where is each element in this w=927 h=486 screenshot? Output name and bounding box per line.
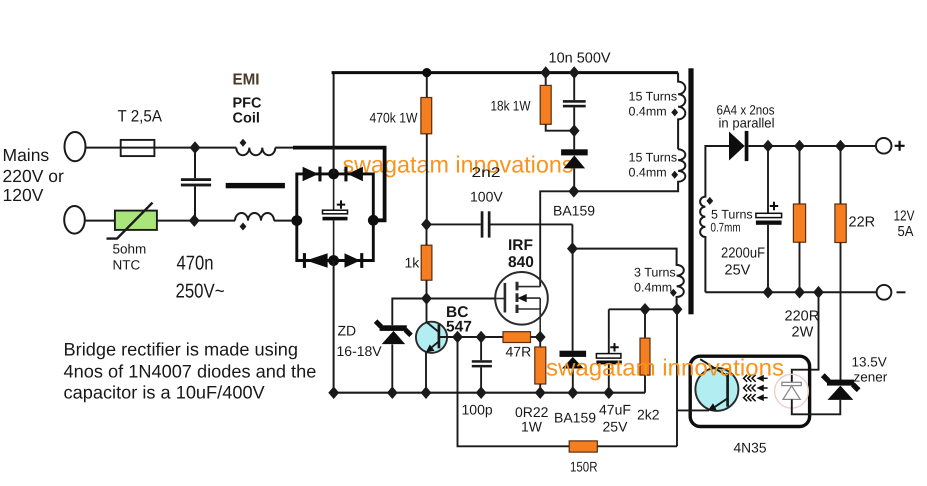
label Mains 220V or 120V (3, 145, 64, 205)
svg-text:22R: 22R (849, 215, 876, 231)
junction: -rail at opto LED return (813, 286, 824, 299)
junction: gate node (1k bottom) (421, 292, 432, 305)
wire: neutral input to EMI coil (85, 220, 235, 222)
junction: neutral/X-cap node (189, 214, 200, 227)
bridge diode D4 (bottom-right) (345, 253, 361, 267)
junction: ground at 0R22 (535, 386, 546, 399)
bridge diode D3 (bottom-left) (303, 253, 306, 268)
diode BA159 (aux clamp) (572, 249, 574, 351)
wire: 2n2 to aux node (571, 224, 573, 248)
transformer T1 primary winding 1 (15 turns) (678, 73, 685, 150)
svg-text:1k: 1k (405, 255, 421, 271)
wire: base node to 47R (458, 336, 504, 338)
svg-text:10n 500V: 10n 500V (549, 51, 611, 67)
inductor L1a: EMI top winding (236, 148, 275, 156)
svg-text:5ohm: 5ohm (113, 242, 147, 257)
wire: LED anode to zener anode (792, 399, 841, 414)
junction: live/X-cap node (190, 141, 201, 154)
svg-text:15 Turns: 15 Turns (629, 151, 678, 165)
MOSFET Q1 IRF840 (495, 272, 548, 325)
svg-text:swagatam innovations: swagatam innovations (546, 355, 784, 381)
junction: ground at 100p (476, 386, 487, 399)
wire: DC+ top rail (332, 71, 678, 74)
svg-text:470k 1W: 470k 1W (370, 110, 419, 126)
diode BA159 (snubber clamp) (573, 131, 575, 150)
value labels primary (337, 51, 767, 475)
Q2 emitter with arrow (430, 341, 439, 349)
phase dot winding 1 (671, 108, 678, 116)
svg-text:3 Turns: 3 Turns (634, 266, 676, 280)
wire: EMI top output to bridge AC right (thick) (293, 148, 385, 221)
svg-text:zener: zener (854, 370, 888, 385)
inductor L1b: EMI bottom winding (235, 213, 274, 221)
capacitor 47uF 25V (608, 309, 610, 353)
svg-text:250V~: 250V~ (176, 281, 225, 303)
zener 13.5V (827, 380, 854, 386)
capacitor 100p (480, 337, 482, 360)
wire: 22R to 13.5V zener (crosses -rail) (840, 243, 842, 381)
wire: bridge + up to DC rail (333, 73, 335, 174)
svg-text:Mains: Mains (3, 145, 50, 165)
junction: aux winding bottom (672, 303, 683, 316)
label BC 547 (446, 304, 472, 336)
junction: ground at BA159 aux (567, 386, 578, 399)
svg-text:in parallel: in parallel (719, 116, 775, 131)
svg-text:220V or: 220V or (3, 166, 64, 186)
Q2 base bar (438, 324, 441, 348)
svg-text:13.5V: 13.5V (852, 355, 887, 370)
resistor 47R (503, 332, 531, 343)
svg-text:0.4mm: 0.4mm (634, 281, 672, 295)
svg-text:470n: 470n (177, 253, 214, 275)
node: bridge AC right (368, 215, 379, 226)
svg-text:547: 547 (446, 319, 472, 336)
label EMI PFC Coil (233, 72, 263, 127)
label 470n 250V~ (176, 253, 225, 303)
EMI coil core bar (226, 183, 285, 188)
junction: drain / winding2 bottom node (568, 185, 579, 198)
node: bridge AC left (291, 215, 302, 226)
junction: ground at bridge - (328, 386, 339, 399)
junction: 470k/1k/2n2 node (421, 218, 432, 231)
junction: ground at BC547 emitter (421, 386, 432, 399)
svg-text:2n2: 2n2 (472, 164, 501, 180)
resistor 18k 1W (545, 73, 547, 86)
value labels secondary (717, 103, 915, 385)
Q1 channel segments (516, 282, 519, 313)
svg-text:100V: 100V (470, 189, 503, 205)
svg-text:swagatam innovations: swagatam innovations (343, 152, 574, 178)
wire: drain node left and down to MOSFET drain (540, 191, 574, 286)
resistor 2k2 (644, 309, 646, 338)
svg-text:5 Turns: 5 Turns (711, 208, 753, 222)
resistor 150R (569, 441, 597, 452)
svg-text:25V: 25V (725, 263, 751, 279)
zener ZD 16-18V (392, 299, 426, 326)
svg-text:2W: 2W (792, 325, 814, 341)
fuse F1 T2,5A (121, 140, 155, 156)
svg-text:12V: 12V (894, 209, 915, 225)
svg-text:0.7mm: 0.7mm (711, 221, 741, 235)
svg-text:4N35: 4N35 (734, 440, 767, 456)
svg-text:PFC: PFC (233, 96, 263, 112)
thermistor NTC 5ohm (115, 211, 157, 230)
Q1 drain lead (519, 286, 541, 288)
transformer T1 secondary winding (5 turns) (700, 146, 729, 292)
svg-text:4nos of 1N4007 diodes and the: 4nos of 1N4007 diodes and the (64, 362, 317, 382)
optocoupler U1 4N35 body (690, 356, 809, 426)
wire: aux bottom to opto emitter / 150R (676, 309, 678, 446)
svg-text:100p: 100p (462, 402, 493, 418)
terminal: -12V output (877, 285, 892, 300)
bridge diode D2 (top-right) (344, 167, 347, 182)
node: bridge - output (328, 255, 339, 266)
bridge rectifier: 4x 1N4007 square (297, 174, 374, 261)
Q2 base lead (439, 336, 458, 338)
opto LED symbol (782, 382, 801, 385)
junction: 18k top on DC rail (540, 66, 551, 79)
Q2 collector (427, 299, 439, 333)
svg-text:15 Turns: 15 Turns (629, 90, 678, 104)
svg-text:840: 840 (508, 254, 534, 271)
svg-text:5A: 5A (898, 224, 914, 240)
opto phototransistor (695, 368, 738, 411)
svg-text:IRF: IRF (508, 237, 533, 254)
junction: ground at 47uF (603, 386, 614, 399)
diode D5 6A4 x2 (729, 132, 745, 161)
resistor 22R (840, 146, 842, 204)
wire: opto emitter out to aux node (677, 409, 709, 411)
svg-text:2200uF: 2200uF (721, 246, 765, 262)
opto light arrows (744, 375, 768, 401)
junction: snubber RC / BA159 cathode node (569, 124, 580, 137)
winding labels (629, 90, 753, 295)
svg-text:Bridge rectifier is made using: Bridge rectifier is made using (64, 340, 299, 360)
phase dot aux winding (670, 289, 677, 297)
svg-text:BA159: BA159 (553, 203, 595, 219)
node: bridge + output (328, 169, 339, 180)
wire: bridge - down to ground rail (333, 261, 335, 393)
transformer T1 aux winding (3 turns) (572, 249, 683, 310)
svg-text:16-18V: 16-18V (337, 343, 383, 359)
junction: -rail at 2200uF (763, 286, 774, 299)
wire: feedback drop from base node through 150R (458, 337, 570, 446)
phase dot L1a (240, 139, 247, 147)
terminal: mains neutral input (64, 206, 85, 234)
opto LED circle (775, 374, 809, 408)
capacitor 10uF/400V inside bridge (333, 174, 335, 210)
wire: live input to EMI coil (86, 147, 237, 149)
junction: 100p top (476, 331, 487, 344)
wire: -rail down to opto LED cathode (792, 292, 819, 382)
svg-text:25V: 25V (603, 419, 629, 435)
wire: ground rail (334, 392, 645, 394)
wire: aux supply node (609, 308, 677, 310)
resistor 470k 1W (426, 73, 428, 98)
phase dot L1b (240, 223, 247, 231)
phase dot secondary (706, 197, 713, 205)
Q1 body arrow (524, 297, 540, 299)
label: bottom note text (64, 340, 317, 403)
svg-text:BA159: BA159 (554, 410, 596, 426)
transistor Q2 BC547 (416, 322, 447, 353)
terminal: +12V output (876, 138, 892, 154)
junction: 2k2 top (640, 303, 651, 316)
junction: -rail at 220R (794, 286, 805, 299)
svg-text:T 2,5A: T 2,5A (118, 108, 163, 126)
bridge diode D1 (top-left) (303, 167, 319, 181)
resistor 220R 2W (799, 146, 801, 204)
junction: +rail at 220R (794, 140, 805, 153)
svg-text:120V: 120V (3, 185, 44, 205)
junction: 10n top on DC rail (569, 66, 580, 79)
phase dot winding 2 (671, 171, 678, 179)
junction: +rail at 22R (835, 140, 846, 153)
opto base bar (726, 373, 729, 407)
svg-text:47R: 47R (506, 344, 532, 360)
svg-text:18k 1W: 18k 1W (491, 98, 532, 114)
transformer T1 primary winding 2 (15 turns) (574, 149, 685, 191)
opto collector (700, 359, 727, 376)
transformer core (688, 68, 693, 314)
Q1 source lead (519, 298, 541, 337)
svg-text:capacitor is a 10uF/400V: capacitor is a 10uF/400V (64, 383, 266, 403)
wire: +12V rail (748, 145, 875, 147)
resistor 1k (421, 245, 432, 280)
svg-text:220R: 220R (785, 309, 820, 325)
capacitor 10n 500V (573, 73, 575, 101)
node: 470k top on DC rail (422, 68, 431, 77)
junction: source / 0R22 node (535, 331, 546, 344)
wire: -12V rail (705, 291, 876, 293)
wire: gate node to gate (427, 298, 496, 300)
junction: ground at ZD (387, 386, 398, 399)
label 5ohm NTC (113, 242, 147, 273)
svg-text:ZD: ZD (338, 323, 357, 339)
junction: +rail at 2200uF (763, 140, 774, 153)
svg-text:1W: 1W (521, 419, 543, 435)
svg-text:0.4mm: 0.4mm (629, 105, 667, 119)
capacitor 470n 250V~ (194, 148, 196, 179)
capacitor 2200uF 25V (767, 146, 769, 213)
opto emitter with arrow (714, 398, 728, 408)
svg-text:Coil: Coil (233, 111, 260, 127)
svg-text:EMI: EMI (233, 72, 260, 89)
svg-text:NTC: NTC (113, 258, 141, 273)
Q1 gate bar (504, 283, 507, 313)
junction: aux winding top / 2n2 node (567, 242, 578, 255)
junction: BC547 base / 47R / feedback node (452, 331, 463, 344)
capacitor 2n2 100V (427, 223, 481, 225)
svg-text:150R: 150R (570, 459, 598, 475)
svg-text:0.4mm: 0.4mm (629, 166, 667, 180)
svg-text:2k2: 2k2 (637, 407, 660, 423)
resistor 0R22 1W (539, 337, 541, 347)
terminal: mains live input (65, 132, 86, 161)
svg-text:47uF: 47uF (599, 402, 631, 418)
label IRF 840 (508, 237, 534, 271)
